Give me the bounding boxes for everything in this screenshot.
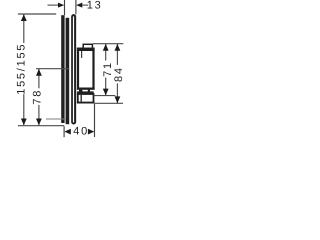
lower knob bottom band [77,102,95,104]
svg-text:78: 78 [32,89,44,105]
dim 13 right arrow [76,3,82,8]
dim 40 ext line right [94,104,96,137]
dim 155 bottom ext line [18,125,64,127]
neck cap right stub [88,90,90,92]
svg-text:13: 13 [87,0,103,12]
dim 84 line lower segment [116,83,118,103]
plate (escutcheon side profile) [72,15,75,124]
dim 78 line lower segment [38,105,40,125]
dim 40 right arrow [88,129,94,135]
lower knob flange band [77,91,94,94]
dim 84 line upper segment [116,44,118,65]
plate inner slit [73,16,74,122]
dim 13 ext line right [75,0,77,14]
dim 78 top ext line [36,68,69,70]
upper knob cap [83,44,92,48]
svg-text:155/155: 155/155 [16,43,28,95]
upper knob bottom band [77,88,95,90]
dim 40 ext line left [63,126,65,137]
dim 71 line upper segment [105,44,107,61]
dim 78 bottom arrow [36,119,42,126]
dim 84 bottom ext line [95,102,124,104]
dim 155 top ext line [18,13,56,15]
dim 84 bottom arrow [115,96,121,103]
dim 13 ext line left [64,0,66,15]
dim 13 left arrow [48,4,59,6]
dim 155 line upper segment [23,14,25,43]
upper knob body [78,49,94,89]
dim 71 top arrow [103,44,109,51]
dim 40 left arrow [64,129,70,135]
svg-text:40: 40 [73,125,89,137]
upper knob top band [77,48,95,51]
dim 78 top arrow [36,69,42,76]
dim 71 line lower segment [105,78,107,96]
svg-text:84: 84 [113,66,125,82]
dim 71 bottom arrow [103,89,109,96]
dim 71/84 top ext line [93,43,123,45]
wall band 2 (wall surface line) [66,18,70,124]
dim 155 line lower segment [23,94,25,125]
dim 78 line upper segment [38,69,40,88]
dim 155 top arrow [21,14,27,21]
wall band 1 (concealed body rear line) [61,15,64,123]
svg-text:71: 71 [102,61,114,77]
dim 71 bottom ext line [94,95,116,97]
neck cap left stub [79,90,82,92]
wall min level thin line [46,118,66,120]
upper knob collar line left [81,51,83,58]
dim 84 top arrow [115,44,121,51]
lower knob inner line [80,95,82,102]
lower knob body [78,94,94,103]
dim 155 bottom arrow [21,119,27,126]
